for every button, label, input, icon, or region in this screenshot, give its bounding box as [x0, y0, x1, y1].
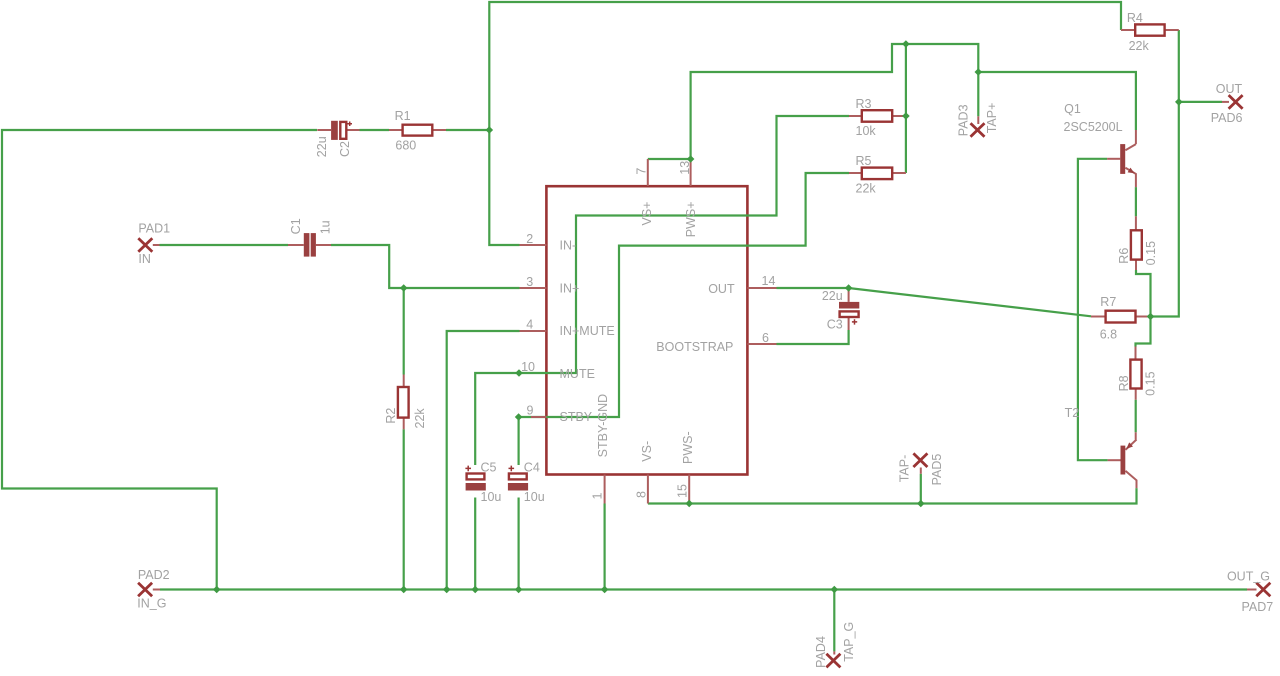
- svg-text:14: 14: [762, 274, 776, 288]
- svg-text:2: 2: [526, 232, 533, 246]
- svg-text:OUT: OUT: [708, 282, 735, 296]
- svg-text:7: 7: [635, 168, 649, 175]
- svg-text:R2: R2: [384, 408, 398, 424]
- svg-text:PWS+: PWS+: [684, 202, 698, 238]
- svg-text:IN+MUTE: IN+MUTE: [560, 324, 615, 338]
- svg-text:PAD6: PAD6: [1211, 111, 1243, 125]
- svg-text:6.8: 6.8: [1100, 327, 1117, 341]
- svg-text:22u: 22u: [822, 289, 843, 303]
- svg-text:TAP+: TAP+: [985, 103, 999, 134]
- svg-text:0.15: 0.15: [1144, 371, 1158, 395]
- svg-text:1: 1: [591, 493, 605, 500]
- svg-text:15: 15: [675, 484, 689, 498]
- svg-text:TAP-: TAP-: [898, 455, 912, 483]
- svg-text:C3: C3: [827, 318, 843, 332]
- svg-text:0.15: 0.15: [1144, 241, 1158, 265]
- svg-text:8: 8: [635, 491, 649, 498]
- svg-text:Q1: Q1: [1064, 102, 1081, 116]
- svg-text:9: 9: [527, 403, 534, 417]
- svg-text:13: 13: [678, 161, 692, 175]
- svg-text:22u: 22u: [315, 136, 329, 157]
- svg-text:R6: R6: [1117, 248, 1131, 264]
- svg-text:C1: C1: [289, 218, 303, 234]
- svg-text:TAP_G: TAP_G: [842, 622, 856, 662]
- svg-text:C5: C5: [481, 461, 497, 475]
- svg-text:IN-: IN-: [560, 239, 577, 253]
- svg-text:MUTE: MUTE: [560, 367, 595, 381]
- svg-text:10u: 10u: [481, 490, 502, 504]
- svg-text:680: 680: [395, 139, 416, 153]
- svg-text:PAD4: PAD4: [814, 636, 828, 668]
- svg-text:R3: R3: [856, 97, 872, 111]
- svg-text:OUT: OUT: [1216, 82, 1243, 96]
- svg-text:6: 6: [762, 331, 769, 345]
- svg-text:C4: C4: [524, 461, 540, 475]
- svg-text:PAD1: PAD1: [138, 221, 170, 235]
- svg-text:STBY-GND: STBY-GND: [596, 394, 610, 457]
- svg-text:PWS-: PWS-: [681, 431, 695, 464]
- svg-text:T2: T2: [1065, 406, 1080, 420]
- svg-text:R5: R5: [856, 154, 872, 168]
- svg-text:IN+: IN+: [560, 281, 580, 295]
- svg-text:PAD3: PAD3: [957, 104, 971, 136]
- svg-text:PAD2: PAD2: [138, 568, 170, 582]
- svg-text:R1: R1: [395, 109, 411, 123]
- svg-text:10: 10: [521, 360, 535, 374]
- svg-text:R8: R8: [1117, 375, 1131, 391]
- svg-text:10u: 10u: [524, 490, 545, 504]
- svg-text:10k: 10k: [856, 124, 877, 138]
- svg-text:2SC5200L: 2SC5200L: [1064, 120, 1123, 134]
- svg-text:PAD5: PAD5: [930, 454, 944, 486]
- svg-text:R4: R4: [1127, 11, 1143, 25]
- svg-text:22k: 22k: [413, 408, 427, 429]
- svg-text:22k: 22k: [856, 181, 877, 195]
- svg-text:VS+: VS+: [640, 202, 654, 226]
- svg-text:PAD7: PAD7: [1241, 600, 1273, 614]
- svg-text:22k: 22k: [1129, 39, 1150, 53]
- svg-text:IN_G: IN_G: [137, 597, 166, 611]
- svg-text:C2: C2: [338, 141, 352, 157]
- svg-text:1u: 1u: [318, 220, 332, 234]
- svg-text:3: 3: [526, 275, 533, 289]
- svg-text:STBY: STBY: [560, 410, 593, 424]
- svg-text:4: 4: [526, 318, 533, 332]
- svg-text:IN: IN: [138, 252, 151, 266]
- svg-text:VS-: VS-: [640, 441, 654, 462]
- svg-text:BOOTSTRAP: BOOTSTRAP: [656, 340, 733, 354]
- svg-text:OUT_G: OUT_G: [1227, 569, 1270, 583]
- svg-text:R7: R7: [1100, 295, 1116, 309]
